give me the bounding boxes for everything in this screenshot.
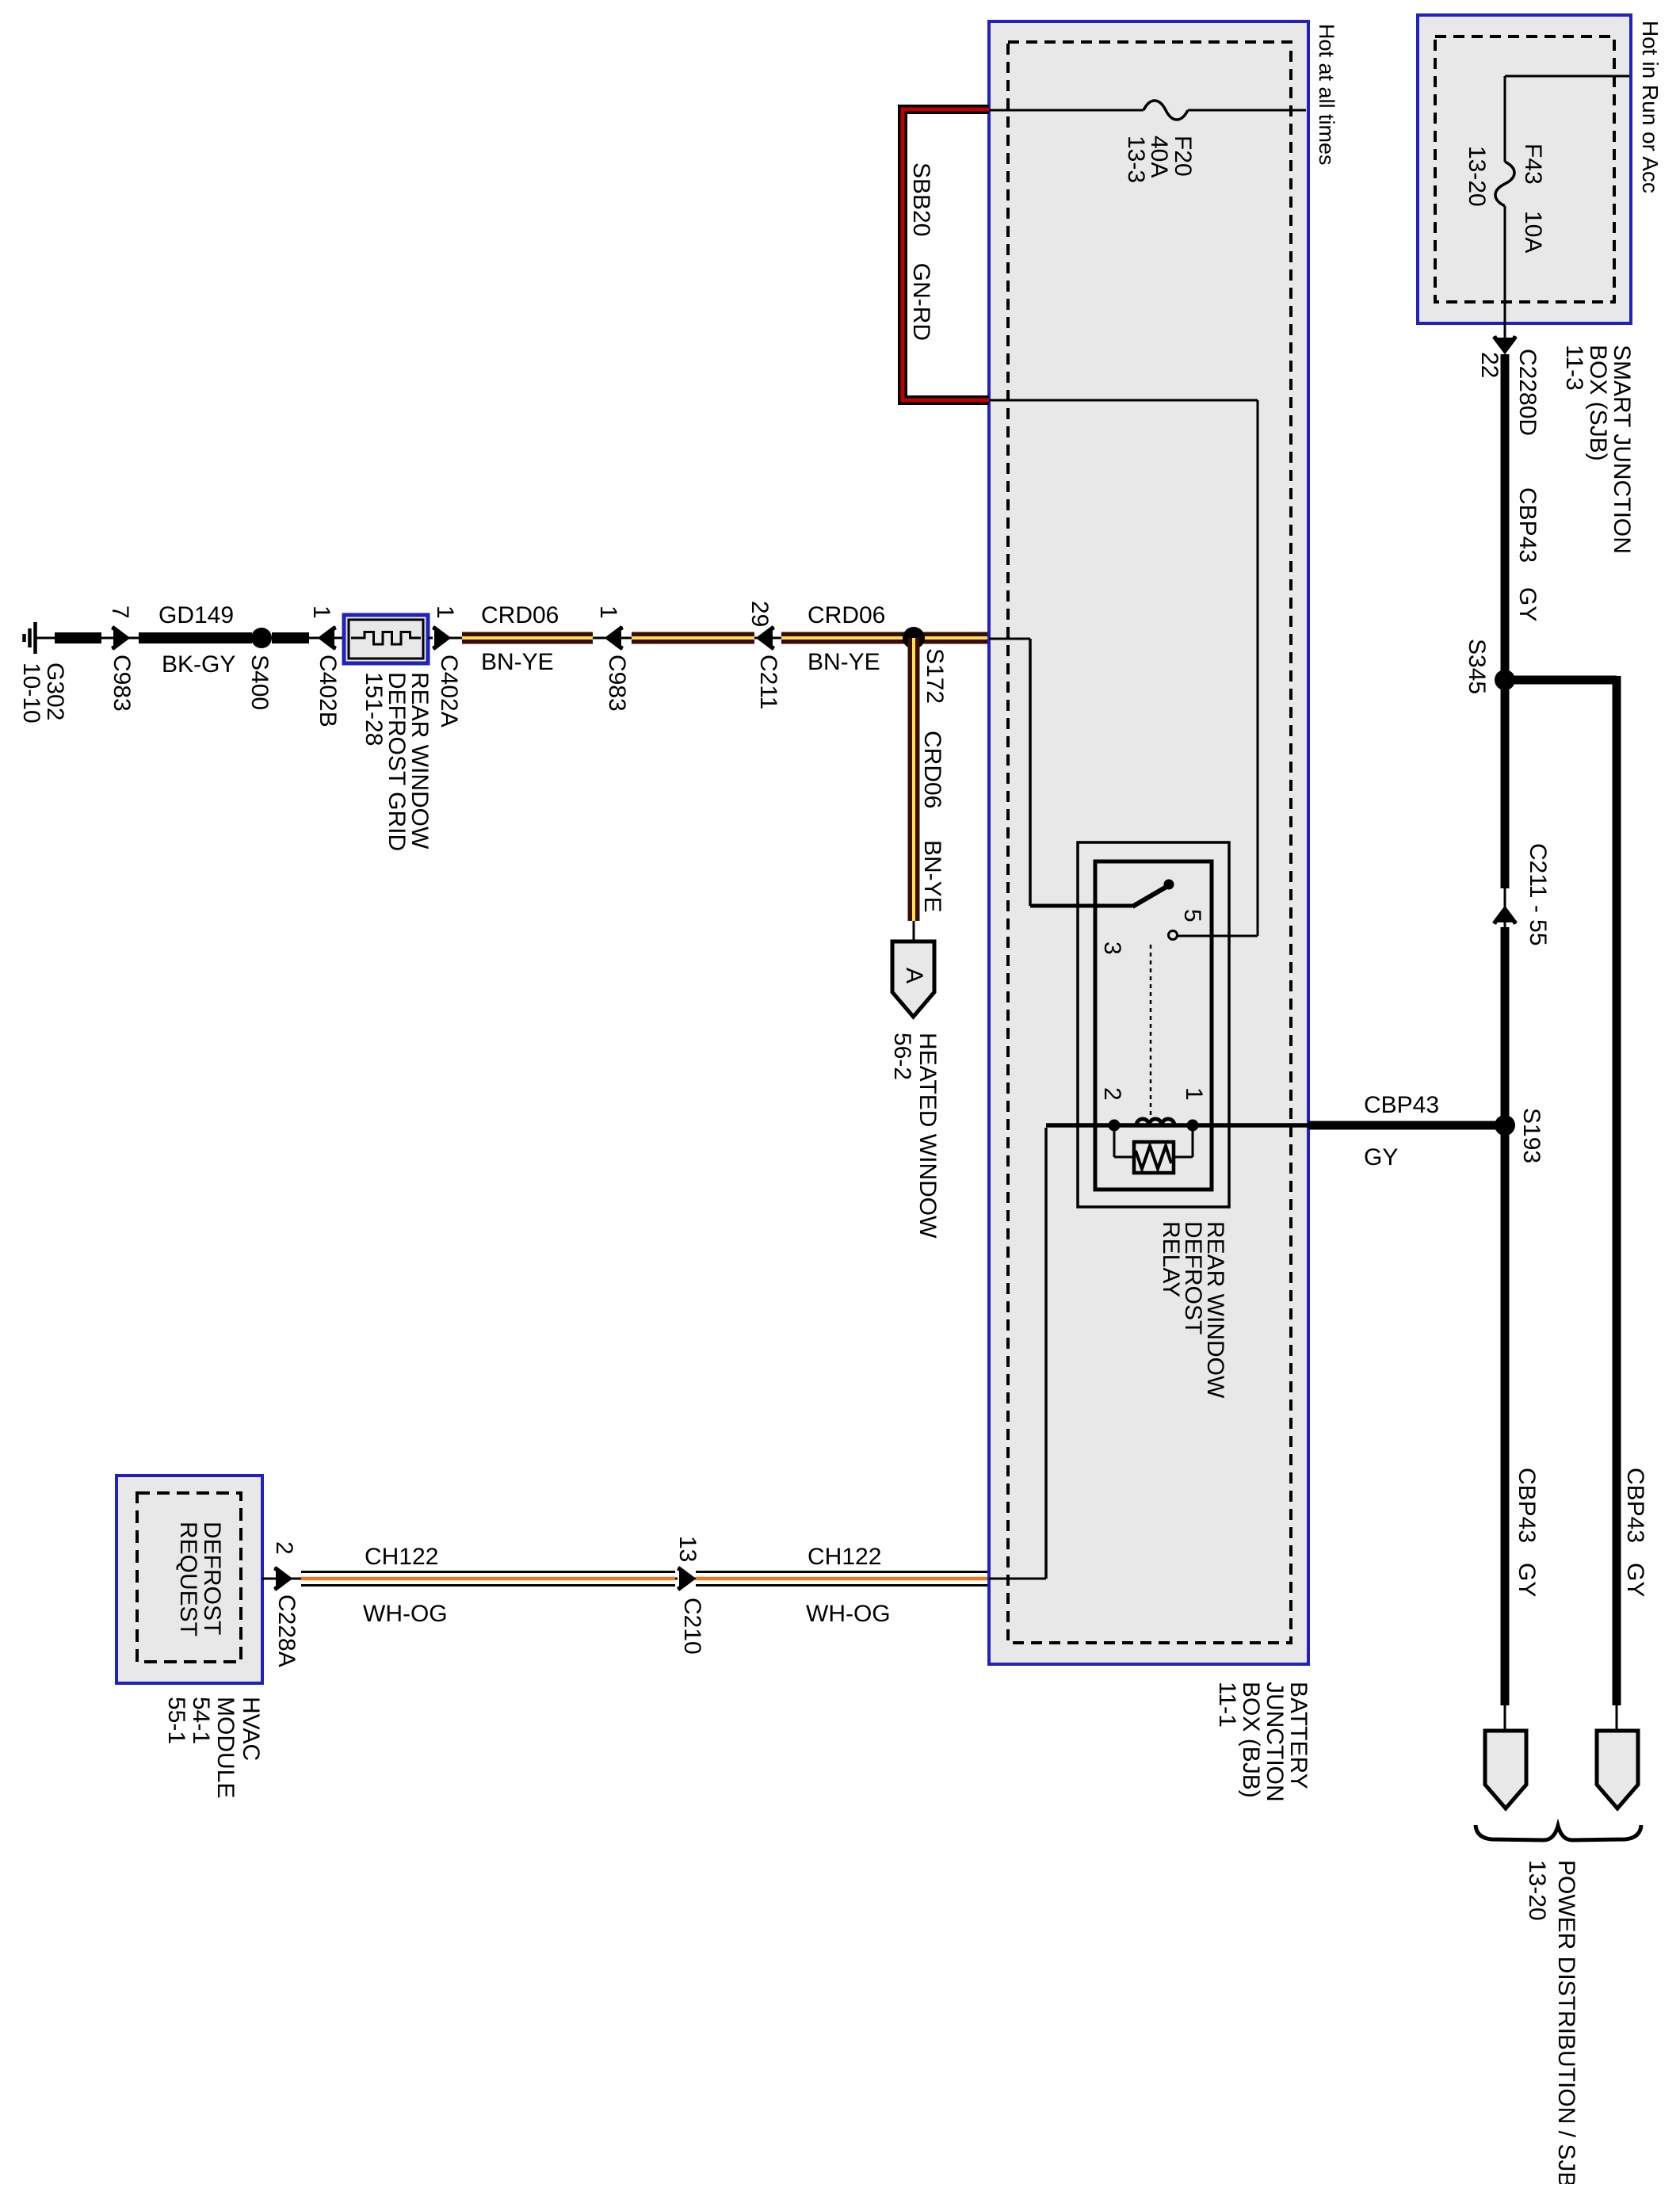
- label S400: [246, 655, 273, 710]
- label GY (horizontal): [1364, 1144, 1398, 1170]
- svg-text:GD149: GD149: [158, 602, 234, 628]
- wire CRD06 BN-YE segment 1: [449, 632, 605, 644]
- label 13-20 (fuse F43 page ref): [1464, 146, 1490, 207]
- svg-text:3: 3: [1099, 941, 1125, 955]
- label REAR WINDOW DEFROST GRID 151-28: [361, 672, 433, 851]
- svg-text:5: 5: [1179, 909, 1205, 922]
- svg-text:CH122: CH122: [365, 1544, 438, 1570]
- SJB inner dashed border: [1435, 36, 1614, 302]
- svg-text:REQUEST: REQUEST: [175, 1522, 201, 1636]
- connector label C983 (#2): [604, 655, 630, 712]
- relay coil pin 2 junction: [1109, 1120, 1121, 1132]
- label CBP43 (bottom right wire): [1622, 1468, 1648, 1543]
- connector C402B pin 1 (arrow left): [320, 628, 336, 648]
- svg-text:13: 13: [674, 1536, 701, 1562]
- wire GD149 from S400 to C402B: [272, 632, 320, 643]
- wire SJB to connector C2280D: [1504, 323, 1506, 349]
- connector label C2280D: [1514, 349, 1541, 436]
- connector C211 - 55 (arrow up): [1495, 888, 1515, 927]
- svg-text:29: 29: [746, 601, 773, 627]
- svg-text:BN-YE: BN-YE: [481, 649, 554, 675]
- svg-text:CBP43: CBP43: [1364, 1092, 1439, 1118]
- brace under power distribution arrows: [1476, 1825, 1641, 1840]
- wire CBP43 branch from S345 to right corner: [1505, 676, 1617, 1705]
- label BK-GY: [162, 651, 235, 678]
- wire CRD06 BN-YE segment 2: [621, 632, 757, 644]
- svg-text:CRD06: CRD06: [481, 602, 559, 628]
- svg-text:S172: S172: [922, 648, 948, 704]
- svg-text:CRD06: CRD06: [808, 602, 885, 628]
- wire SBB20 GN-RD loop (black sheath): [903, 109, 989, 400]
- connector C210 pin 13 (arrow right): [678, 1568, 693, 1589]
- label GY (bottom right wire): [1622, 1563, 1648, 1597]
- label CBP43 (upper): [1514, 487, 1541, 563]
- svg-text:GY: GY: [1514, 1563, 1540, 1597]
- svg-text:DEFROST: DEFROST: [199, 1522, 225, 1635]
- relay switch blade: [1132, 880, 1174, 907]
- svg-text:S193: S193: [1518, 1108, 1544, 1163]
- wire CRD06 BN-YE segment 3 to BJB: [773, 632, 987, 644]
- svg-text:CBP43: CBP43: [1514, 1468, 1540, 1543]
- svg-text:CH122: CH122: [808, 1544, 881, 1570]
- pin label 22: [1476, 352, 1502, 378]
- label GY (bottom left wire): [1514, 1563, 1540, 1597]
- svg-text:13-20: 13-20: [1524, 1860, 1550, 1921]
- label F43 10A: [1520, 143, 1546, 253]
- arrow connector A (to heated window): [892, 941, 934, 1017]
- svg-text:C210: C210: [679, 1598, 705, 1655]
- wire CH122 inside BJB to relay coil: [989, 1128, 1046, 1579]
- label CRD06 (segment 3): [808, 602, 885, 628]
- wire grid to connector C402A: [428, 637, 433, 640]
- svg-text:1: 1: [308, 605, 334, 619]
- svg-text:SMART JUNCTION: SMART JUNCTION: [1609, 345, 1635, 554]
- wire CH122 WH-OG segment 1: [290, 1572, 678, 1586]
- label WH-OG (segment 1): [363, 1601, 448, 1627]
- svg-text:BOX (SJB): BOX (SJB): [1585, 345, 1611, 461]
- label HVAC MODULE 54-1 55-1: [163, 1697, 264, 1798]
- relay inner box: [1095, 861, 1212, 1189]
- svg-text:151-28: 151-28: [361, 672, 387, 746]
- wire GD149 segment at ground: [55, 632, 101, 643]
- svg-text:RELAY: RELAY: [1158, 1221, 1184, 1297]
- svg-text:7: 7: [107, 605, 133, 619]
- svg-text:1: 1: [1181, 1087, 1207, 1101]
- rear window defrost grid box: [344, 615, 428, 663]
- svg-text:GY: GY: [1364, 1144, 1398, 1170]
- svg-text:C228A: C228A: [273, 1594, 300, 1667]
- pin label 13: [674, 1536, 701, 1562]
- wire C402B to grid box: [334, 637, 344, 640]
- wire CRD06 BN-YE drop from S172 to heated window: [908, 638, 920, 941]
- svg-text:55-1: 55-1: [163, 1697, 189, 1744]
- svg-text:HVAC: HVAC: [238, 1697, 264, 1761]
- connector label C402A: [436, 655, 462, 727]
- arrow connector to power distribution (right): [1597, 1705, 1638, 1808]
- ground G302 symbol: [25, 622, 55, 654]
- svg-text:G302: G302: [42, 663, 68, 720]
- svg-text:A: A: [901, 968, 927, 983]
- svg-text:GY: GY: [1514, 587, 1541, 621]
- connector label C228A: [273, 1594, 300, 1667]
- svg-text:54-1: 54-1: [188, 1697, 214, 1744]
- label SMART JUNCTION BOX (SJB) 11-3: [1561, 345, 1635, 554]
- wire inside SJB to fuse F43: [1505, 76, 1629, 162]
- relay coil pin 1 junction: [1187, 1120, 1199, 1132]
- svg-text:WH-OG: WH-OG: [806, 1601, 891, 1627]
- label POWER DISTRIBUTION / SJB 13-20: [1524, 1860, 1579, 2187]
- svg-text:CRD06: CRD06: [919, 731, 945, 808]
- label CRD06 (vertical): [919, 731, 945, 808]
- wire CH122 WH-OG segment 2: [693, 1572, 987, 1586]
- fuse F20 40A: [1144, 101, 1188, 120]
- BJB inner dashed border: [1008, 42, 1291, 1643]
- pin label 2: [1099, 1087, 1125, 1101]
- label CH122 (segment 2): [808, 1544, 881, 1570]
- pin label 7: [107, 605, 133, 619]
- svg-text:56-2: 56-2: [889, 1033, 915, 1080]
- relay contact pin 5: [1169, 931, 1178, 940]
- fuse F43 10A: [1495, 162, 1514, 206]
- svg-text:22: 22: [1476, 352, 1502, 378]
- relay switch feed wire (from CRD06 entry): [989, 639, 1132, 906]
- svg-text:SBB20 GN-RD: SBB20 GN-RD: [908, 162, 934, 341]
- pin label 5: [1179, 909, 1205, 922]
- wire from fuse F43 to SJB edge: [1504, 206, 1506, 323]
- connector C2280D pin 22 (arrow down): [1495, 336, 1515, 352]
- connector label C983: [109, 655, 135, 712]
- splice S172: [903, 627, 925, 649]
- svg-text:1: 1: [432, 605, 458, 619]
- pin label 1: [1181, 1087, 1207, 1101]
- svg-text:S345: S345: [1464, 639, 1490, 694]
- label REAR WINDOW DEFROST RELAY: [1158, 1221, 1228, 1399]
- label BN-YE (segment 1): [481, 649, 554, 675]
- label CBP43 (bottom left wire): [1514, 1468, 1540, 1543]
- svg-text:Hot in Run or Acc: Hot in Run or Acc: [1638, 21, 1663, 193]
- label CBP43 (horizontal): [1364, 1092, 1439, 1118]
- svg-text:11-1: 11-1: [1214, 1682, 1240, 1728]
- connector label C402B: [315, 655, 341, 727]
- label S193: [1518, 1108, 1544, 1163]
- label WH-OG (segment 2): [806, 1601, 891, 1627]
- label Hot at all times: [1315, 24, 1338, 166]
- label A: [901, 968, 927, 983]
- wire CBP43 from S345 to C211: [1501, 685, 1510, 888]
- label CRD06 (segment 1): [481, 602, 559, 628]
- label G302 10-10: [18, 663, 68, 724]
- label CH122 (segment 1): [365, 1544, 438, 1570]
- svg-text:JUNCTION: JUNCTION: [1262, 1682, 1288, 1802]
- connector label C210: [679, 1598, 705, 1655]
- svg-text:C211: C211: [755, 655, 781, 710]
- connector label C211 - 55: [1525, 843, 1551, 946]
- svg-text:C211 - 55: C211 - 55: [1525, 843, 1551, 946]
- svg-text:MODULE: MODULE: [212, 1697, 239, 1798]
- relay coil winding: [1136, 1119, 1174, 1125]
- pin label 1 (C402A): [432, 605, 458, 619]
- svg-text:CBP43: CBP43: [1622, 1468, 1648, 1543]
- svg-text:C402A: C402A: [436, 655, 462, 727]
- wire CBP43 GY relay pin 1 to S193: [1308, 1121, 1501, 1130]
- splice S345: [1495, 670, 1515, 690]
- svg-text:F43 10A: F43 10A: [1520, 143, 1546, 253]
- wire CBP43 GY from C2280D to S345: [1501, 354, 1510, 680]
- connector C402A pin 1 (arrow right): [433, 628, 449, 648]
- relay actuator dashed link: [1150, 945, 1152, 1117]
- relay outer box: [1078, 842, 1229, 1207]
- svg-text:BATTERY: BATTERY: [1285, 1682, 1312, 1789]
- pin label 29: [746, 601, 773, 627]
- svg-text:GY: GY: [1622, 1563, 1648, 1597]
- connector C211 pin 29 (arrow left): [758, 628, 774, 648]
- svg-text:C402B: C402B: [315, 655, 341, 727]
- svg-text:2: 2: [271, 1541, 297, 1555]
- label DEFROST REQUEST: [175, 1522, 225, 1636]
- connector label C211: [755, 655, 781, 710]
- label BATTERY JUNCTION BOX (BJB) 11-1: [1214, 1682, 1312, 1802]
- wire CBP43 from C211 to S193: [1501, 927, 1510, 1125]
- wire HVAC pin 2 to connector C228A: [262, 1578, 276, 1580]
- svg-text:Hot at all times: Hot at all times: [1315, 24, 1338, 166]
- wire BJB left edge to fuse F20: [989, 109, 1144, 112]
- wire fuse F20 to BJB right edge: [1188, 109, 1306, 112]
- svg-text:13-3: 13-3: [1123, 136, 1149, 183]
- svg-text:BK-GY: BK-GY: [162, 651, 235, 678]
- svg-text:WH-OG: WH-OG: [363, 1601, 448, 1627]
- splice S193: [1495, 1115, 1515, 1136]
- connector C983 pin 1 (arrow left): [607, 628, 623, 648]
- svg-text:C983: C983: [109, 655, 135, 712]
- label BN-YE (segment 3): [808, 649, 880, 675]
- wire CBP43 GY from S193 to bottom arrow: [1501, 1130, 1510, 1705]
- HVAC module box outline: [116, 1476, 262, 1683]
- pin label 1 (C983 #2): [595, 605, 621, 619]
- grid element (square wave): [351, 632, 421, 645]
- svg-text:1: 1: [595, 605, 621, 619]
- label F20 40A 13-3: [1123, 136, 1196, 183]
- wire from SBB20 to relay contact 5 (via top run): [989, 400, 1258, 936]
- label HEATED WINDOW 56-2: [889, 1033, 941, 1239]
- HVAC inner dashed border (DEFROST REQUEST): [137, 1493, 241, 1662]
- svg-text:10-10: 10-10: [18, 663, 44, 724]
- svg-text:S400: S400: [246, 655, 273, 710]
- wire SBB20 GN-RD loop (red core): [903, 109, 989, 400]
- svg-text:HEATED WINDOW: HEATED WINDOW: [914, 1033, 941, 1239]
- battery junction box (BJB) outline: [989, 21, 1308, 1664]
- label GY (upper): [1514, 587, 1541, 621]
- smart junction box (SJB) outline: [1418, 15, 1631, 323]
- pin label 3: [1099, 941, 1125, 955]
- svg-text:POWER DISTRIBUTION / SJB: POWER DISTRIBUTION / SJB: [1553, 1860, 1579, 2184]
- svg-text:13-20: 13-20: [1464, 146, 1490, 207]
- label S345: [1464, 639, 1490, 694]
- svg-text:CBP43: CBP43: [1514, 487, 1541, 563]
- label S172: [922, 648, 948, 704]
- label Hot in Run or Acc: [1638, 21, 1663, 193]
- label GD149: [158, 602, 234, 628]
- wire to connector C983: [101, 637, 114, 640]
- arrow connector to power distribution (left): [1485, 1705, 1526, 1808]
- svg-text:C2280D: C2280D: [1514, 349, 1541, 436]
- wire GD149 BK-GY main segment: [128, 637, 252, 640]
- svg-text:BN-YE: BN-YE: [808, 649, 880, 675]
- svg-text:BOX (BJB): BOX (BJB): [1238, 1682, 1264, 1798]
- svg-text:C983: C983: [604, 655, 630, 712]
- connector C983 pin 7 (arrow right): [112, 628, 128, 648]
- label BN-YE (vertical): [919, 840, 945, 913]
- pin label 1 (C402B): [308, 605, 334, 619]
- relay coil wire pins 2-1: [1046, 1123, 1308, 1128]
- svg-text:F20: F20: [1170, 136, 1196, 177]
- splice S400: [251, 628, 272, 648]
- svg-text:2: 2: [1099, 1087, 1125, 1101]
- label SBB20 GN-RD: [908, 162, 934, 341]
- svg-text:11-3: 11-3: [1561, 345, 1587, 391]
- pin label 2 (C228A): [271, 1541, 297, 1555]
- connector C228A pin 2 (arrow right): [274, 1568, 290, 1589]
- relay suppression resistor: [1114, 1131, 1193, 1173]
- svg-text:BN-YE: BN-YE: [919, 840, 945, 913]
